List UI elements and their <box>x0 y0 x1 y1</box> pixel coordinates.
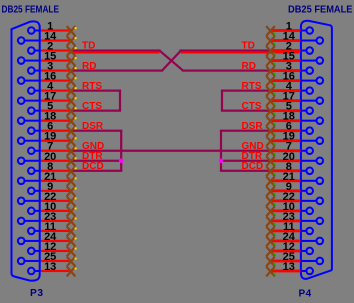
no-connect X at P4 pin 18 <box>266 116 275 126</box>
P3 pin 3 <box>28 61 71 74</box>
svg-text:DB25 FEMALE: DB25 FEMALE <box>288 4 353 15</box>
wire net RD-P3 to TD-P4 (crossover) <box>70 49 271 71</box>
no-connect X at P3 pin 23 <box>67 216 77 226</box>
no-connect X at P3 pin 22 <box>67 196 77 206</box>
no-connect X at P4 pin 1 <box>266 26 275 36</box>
no-connect X at P4 pin 11 <box>266 227 275 237</box>
P4 pin 24 <box>271 231 323 244</box>
no-connect X at P4 pin 5 <box>266 106 275 116</box>
no-connect X at P3 pin 11 <box>67 227 77 237</box>
no-connect X at P4 pin 17 <box>266 96 275 106</box>
no-connect X at P4 pin 3 <box>266 66 275 76</box>
P4 pin 16 <box>271 71 323 84</box>
P3 pin 18 <box>18 111 71 124</box>
no-connect X at P3 pin 6 <box>67 126 77 136</box>
no-connect X at P4 pin 24 <box>266 237 275 247</box>
P4 pin 13 <box>271 261 313 274</box>
svg-text:CTS: CTS <box>82 101 102 112</box>
svg-text:RD: RD <box>82 61 96 72</box>
wire RTS-CTS loopback at P3 <box>69 90 121 112</box>
svg-text:13: 13 <box>283 261 295 273</box>
P3 pin 10 <box>28 201 71 214</box>
svg-text:DSR: DSR <box>82 121 104 132</box>
P4 pin 4 <box>271 81 313 94</box>
svg-text:RTS: RTS <box>82 81 102 92</box>
red overlay wire under TD-P4 run <box>181 52 300 54</box>
no-connect X at P3 pin 5 <box>67 106 77 116</box>
P4 pin 21 <box>271 171 323 184</box>
P3 pin 12 <box>28 241 71 254</box>
P4 pin 20 <box>271 151 323 164</box>
no-connect X at P3 pin 21 <box>67 176 77 186</box>
no-connect X at P4 pin 8 <box>266 166 275 176</box>
red overlay wire under TD-P3 run <box>70 52 160 54</box>
no-connect X at P3 pin 3 <box>67 66 77 76</box>
P3 pin 16 <box>18 71 71 84</box>
no-connect X at P4 pin 2 <box>266 46 275 56</box>
no-connect X at P4 pin 22 <box>266 196 275 206</box>
no-connect X at P4 pin 25 <box>266 257 275 267</box>
svg-text:TD: TD <box>242 41 255 52</box>
P3 pin 4 <box>28 81 71 94</box>
P4 pin 7 <box>271 141 313 154</box>
no-connect X at P3 pin 10 <box>67 206 77 216</box>
P4 pin 11 <box>271 221 313 234</box>
svg-text:DSR: DSR <box>242 121 264 132</box>
no-connect X at P4 pin 4 <box>266 86 275 96</box>
no-connect X at P3 pin 19 <box>67 136 77 146</box>
P3 pin 8 <box>28 161 71 174</box>
P4 pin 9 <box>271 181 313 194</box>
no-connect X at P3 pin 24 <box>67 237 77 247</box>
no-connect X at P3 pin 17 <box>67 96 77 106</box>
P3 pin 9 <box>28 181 71 194</box>
no-connect X at P4 pin 20 <box>266 156 275 166</box>
P4 pin 3 <box>271 61 313 74</box>
no-connect X at P3 pin 16 <box>67 76 77 86</box>
svg-text:DCD: DCD <box>242 161 264 172</box>
P3 pin 11 <box>28 221 71 234</box>
junction dot DTR-P3 <box>119 158 124 163</box>
svg-text:13: 13 <box>44 261 56 273</box>
P3 pin 17 <box>18 91 71 104</box>
no-connect X at P4 pin 19 <box>266 136 275 146</box>
P4 pin 10 <box>271 201 313 214</box>
P4 pin 14 <box>271 31 323 44</box>
svg-text:RD: RD <box>242 61 256 72</box>
wire DSR-DTR-DCD loopback at P3 <box>70 130 122 172</box>
svg-text:P4: P4 <box>299 289 312 300</box>
no-connect X at P3 pin 12 <box>67 247 77 257</box>
no-connect X at P3 pin 9 <box>67 186 77 196</box>
P3 pin 5 <box>28 101 71 114</box>
no-connect X at P3 pin 7 <box>67 146 77 156</box>
no-connect X at P4 pin 10 <box>266 206 275 216</box>
no-connect X at P3 pin 14 <box>67 36 77 46</box>
P3 pin 20 <box>18 151 71 164</box>
P3 pin 21 <box>18 171 71 184</box>
P4 pin 23 <box>271 211 323 224</box>
P4 pin 8 <box>271 161 313 174</box>
P3 pin 7 <box>28 141 71 154</box>
P4 pin 12 <box>271 241 313 254</box>
svg-text:CTS: CTS <box>242 101 262 112</box>
no-connect X at P3 pin 2 <box>67 46 77 56</box>
P4 pin 17 <box>271 91 323 104</box>
wire GND P3 to GND P4 <box>70 150 271 152</box>
P3 pin 22 <box>18 191 71 204</box>
svg-text:TD: TD <box>82 41 95 52</box>
wire DSR-DTR-DCD loopback at P4 <box>220 130 271 172</box>
svg-text:RTS: RTS <box>242 81 262 92</box>
no-connect X at P4 pin 15 <box>266 56 275 66</box>
no-connect X at P3 pin 4 <box>67 86 77 96</box>
P4 pin 15 <box>271 51 323 64</box>
no-connect X at P4 pin 23 <box>266 216 275 226</box>
svg-text:DB25 FEMALE: DB25 FEMALE <box>2 4 60 15</box>
svg-text:P3: P3 <box>30 288 44 299</box>
P4 pin 22 <box>271 191 323 204</box>
no-connect X at P3 pin 1 <box>67 26 77 36</box>
P3 pin 23 <box>18 211 71 224</box>
no-connect X at P4 pin 6 <box>266 126 275 136</box>
P4 pin 25 <box>271 251 323 264</box>
P4 pin 6 <box>271 121 313 134</box>
svg-text:DCD: DCD <box>82 161 104 172</box>
P4 pin 5 <box>271 101 313 114</box>
connector P4 shell (DB25 female, right) <box>301 21 332 279</box>
no-connect X at P3 pin 20 <box>67 156 77 166</box>
wire net TD-P3 to RD-P4 (crossover) <box>70 49 271 71</box>
P3 pin 14 <box>18 31 71 44</box>
no-connect X at P4 pin 14 <box>266 36 275 46</box>
no-connect X at P3 pin 18 <box>67 116 77 126</box>
no-connect X at P4 pin 21 <box>266 176 275 186</box>
no-connect X at P4 pin 12 <box>266 247 275 257</box>
P3 pin 24 <box>18 231 71 244</box>
junction dot DTR-P4 <box>219 158 224 163</box>
P3 pin 25 <box>18 251 71 264</box>
no-connect X at P3 pin 15 <box>67 56 77 66</box>
P4 pin 2 <box>271 41 313 54</box>
P3 pin 15 <box>18 51 71 64</box>
P4 pin 19 <box>271 131 323 144</box>
no-connect X at P4 pin 9 <box>266 186 275 196</box>
P4 pin 1 <box>271 21 313 34</box>
connector P3 shell (DB25 female, left) <box>12 21 40 280</box>
P3 pin 6 <box>28 121 71 134</box>
no-connect X at P3 pin 13 <box>67 267 77 277</box>
P3 pin 13 <box>28 261 71 274</box>
P3 pin 19 <box>18 131 71 144</box>
no-connect X at P3 pin 8 <box>67 166 77 176</box>
no-connect X at P4 pin 7 <box>266 146 275 156</box>
P4 pin 18 <box>271 111 323 124</box>
P3 pin 2 <box>28 41 71 54</box>
no-connect X at P4 pin 13 <box>266 267 275 277</box>
wire RTS-CTS loopback at P4 <box>221 90 271 112</box>
no-connect X at P4 pin 16 <box>266 76 275 86</box>
no-connect X at P3 pin 25 <box>67 257 77 267</box>
P3 pin 1 <box>28 21 71 34</box>
